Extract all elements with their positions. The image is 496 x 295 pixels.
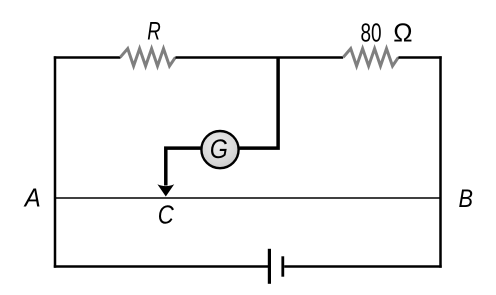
wire: top-middle segment (between R and 80 ohm resistor) — [175, 56, 343, 59]
battery long plate — [268, 249, 271, 284]
svg-text:C: C — [158, 200, 174, 230]
wire: middle horizontal A-B (slide wire) — [55, 197, 441, 199]
wire: bottom-right segment (from battery) — [284, 265, 442, 268]
battery short plate — [281, 256, 284, 276]
svg-text:80: 80 — [361, 18, 382, 48]
galvanometer G1 circle — [201, 131, 238, 168]
wire: bottom-left segment (to battery) — [54, 265, 268, 268]
svg-text:G: G — [210, 134, 228, 164]
wire: thick galvanometer branch from top node down and left to G — [240, 58, 279, 149]
wire: thick branch from G left and down toward C — [166, 148, 201, 185]
wire: right side vertical (B branch) — [439, 56, 442, 268]
arrowhead pointing at node C — [157, 184, 174, 196]
svg-text:Ω: Ω — [393, 18, 412, 48]
svg-text:R: R — [147, 18, 161, 46]
wire: top-left segment (node to resistor R) — [54, 56, 121, 59]
svg-text:A: A — [23, 183, 41, 213]
resistor R2 (80 ohm) zigzag — [343, 49, 398, 66]
wire: left side vertical (A branch) — [54, 56, 57, 268]
svg-text:B: B — [459, 185, 474, 213]
resistor R1 (R) zigzag — [120, 49, 175, 66]
wire: top-right segment (80 ohm to corner) — [398, 56, 441, 59]
